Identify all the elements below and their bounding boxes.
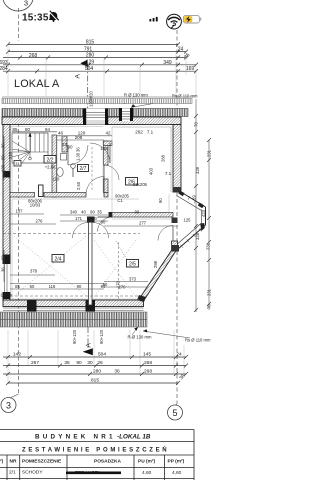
table vertical lines	[7, 430, 194, 480]
svg-text:96: 96	[135, 210, 140, 215]
svg-text:-LOKAL 1B: -LOKAL 1B	[117, 434, 151, 441]
table data row	[9, 470, 182, 477]
svg-text:7.1: 7.1	[147, 130, 154, 135]
svg-text:2/4: 2/4	[55, 257, 62, 263]
stair landing box	[14, 161, 21, 167]
dashed attic line mid room	[3, 233, 140, 235]
left wall	[3, 125, 10, 301]
bay top diagonal jambs	[178, 191, 184, 197]
dashed projection line near section	[91, 147, 93, 192]
svg-text:267: 267	[31, 360, 39, 366]
signal bars	[149, 17, 157, 22]
svg-text:85: 85	[15, 284, 20, 289]
svg-text:5: 5	[172, 408, 177, 418]
svg-text:BUDYNEK NR1: BUDYNEK NR1	[35, 434, 116, 441]
svg-text:Rs Ø 110 mm: Rs Ø 110 mm	[185, 338, 211, 343]
svg-text:Rs Ø 110 mm: Rs Ø 110 mm	[172, 94, 198, 99]
svg-text:24: 24	[178, 47, 184, 53]
bottom R labels with arrows	[128, 335, 212, 343]
grid line 5 (right)	[176, 30, 178, 404]
svg-text:35: 35	[64, 360, 70, 366]
bay lower wall diagonal (hatched)	[140, 248, 177, 301]
duct column stub	[62, 136, 67, 152]
svg-text:42: 42	[105, 131, 111, 136]
svg-text:90+120: 90+120	[99, 329, 104, 344]
svg-text:280: 280	[93, 369, 101, 375]
grid bubble 3 bottom	[1, 398, 16, 413]
bath drain circle	[71, 164, 76, 169]
svg-text:46: 46	[58, 131, 64, 136]
wall V1 lower	[104, 179, 109, 193]
circled wifi icon	[167, 14, 182, 29]
bath wc	[61, 154, 67, 161]
svg-text:36: 36	[76, 147, 81, 152]
interior dim lines	[4, 99, 209, 312]
door in V1 arc	[104, 165, 119, 180]
window W1 opening in top wall	[86, 109, 105, 125]
section line A top	[87, 64, 89, 117]
svg-text:504: 504	[98, 352, 106, 358]
left wall window gap	[3, 264, 11, 292]
room box 2/2 stair	[44, 156, 56, 164]
stair treads	[12, 133, 48, 163]
interior small labels bath	[0, 165, 191, 298]
svg-text:284: 284	[0, 66, 8, 72]
svg-text:3: 3	[6, 401, 11, 411]
wall V1 (bath / room 2-6 divider) upper	[104, 141, 109, 165]
svg-text:298: 298	[153, 260, 158, 268]
bay bottom diagonal jambs	[200, 223, 205, 231]
svg-text:90: 90	[90, 210, 95, 215]
muted bell icon	[49, 11, 59, 22]
svg-text:268: 268	[161, 154, 166, 162]
svg-text:262: 262	[135, 130, 143, 135]
svg-text:137: 137	[16, 209, 24, 214]
eaves line top	[2, 96, 193, 98]
section marker A top triangle	[80, 60, 87, 67]
svg-text:36: 36	[1, 143, 6, 148]
svg-text:ZESTAWIENIE POMIESZCZEŃ: ZESTAWIENIE POMIESZCZEŃ	[22, 446, 169, 454]
room box 2/5	[127, 260, 139, 268]
svg-text:POMIESZCZENIE: POMIESZCZENIE	[22, 459, 62, 465]
svg-text:²): ²)	[0, 459, 4, 465]
right wall end block	[173, 187, 181, 192]
svg-text:268: 268	[29, 53, 38, 59]
svg-text:231: 231	[206, 242, 211, 250]
svg-text:280: 280	[86, 53, 95, 59]
svg-text:268: 268	[144, 369, 152, 375]
svg-text:90: 90	[101, 220, 106, 225]
eaves hatch band top	[2, 99, 192, 104]
svg-text:90: 90	[67, 145, 73, 150]
svg-text:2,50: 2,50	[76, 181, 81, 190]
interior finish lines	[10, 127, 171, 300]
bottom dimension chain lines	[3, 357, 186, 383]
dashed knee wall line bottom	[10, 295, 139, 297]
svg-text:80: 80	[25, 127, 31, 132]
svg-text:815: 815	[86, 39, 95, 45]
svg-text:10/03: 10/03	[30, 203, 41, 208]
svg-text:7.1: 7.1	[165, 171, 172, 176]
svg-text:815: 815	[91, 378, 99, 384]
table header row	[0, 459, 185, 465]
svg-text:R-Ø 130 mm: R-Ø 130 mm	[128, 335, 152, 340]
wall stub above V1	[104, 141, 113, 146]
door arc left of V2	[73, 223, 89, 239]
svg-text:125: 125	[184, 218, 192, 223]
svg-text:110: 110	[53, 177, 60, 182]
leader arrows top right	[124, 98, 130, 104]
door D1 in W1 arc	[86, 177, 104, 195]
door arc middle room left	[68, 145, 88, 165]
content layers	[1, 0, 183, 420]
right dim ticks	[194, 114, 211, 312]
door arc middle room right	[90, 143, 110, 163]
svg-text:118: 118	[49, 284, 56, 289]
svg-text:2/2: 2/2	[47, 158, 54, 164]
bottom piers	[27, 300, 37, 312]
svg-text:31: 31	[15, 161, 20, 166]
dotted attic diagonals room 2-4	[14, 236, 136, 297]
wall W1 right stub	[104, 193, 108, 198]
bay right face	[205, 207, 207, 225]
svg-text:2/5: 2/5	[129, 262, 136, 268]
svg-text:36: 36	[1, 267, 6, 272]
left wall corner block	[3, 292, 11, 299]
dimension labels top	[0, 39, 194, 72]
svg-text:120H/20: 120H/20	[89, 90, 94, 107]
svg-text:PP (m²): PP (m²)	[168, 459, 185, 465]
top wall	[2, 117, 181, 125]
window W2 top right	[122, 109, 130, 122]
svg-text:PU (m²): PU (m²)	[138, 459, 155, 465]
left wall lower jamb block	[3, 255, 11, 265]
svg-text:1,30: 1,30	[76, 152, 81, 161]
svg-text:90: 90	[77, 284, 82, 289]
svg-text:423: 423	[201, 209, 206, 217]
svg-text:378: 378	[30, 269, 38, 274]
svg-text:171: 171	[75, 216, 83, 221]
svg-text:36: 36	[114, 369, 120, 375]
svg-text:2/1: 2/1	[9, 470, 16, 476]
svg-text:LOKAL A: LOKAL A	[14, 78, 60, 90]
interior wall V2 (rooms 2-4 / 2-5 divider)	[89, 217, 93, 305]
svg-text:40: 40	[81, 210, 86, 215]
svg-text:h=1,45m: h=1,45m	[0, 293, 13, 298]
stair walk line with arrow	[29, 136, 31, 158]
svg-text:268: 268	[144, 360, 152, 366]
svg-text:129: 129	[86, 59, 95, 65]
grid bubble 5 bottom	[168, 405, 183, 420]
bay corner block	[137, 295, 146, 302]
svg-text:142: 142	[13, 352, 21, 358]
svg-text:169: 169	[186, 66, 195, 72]
battery charging icon	[183, 15, 199, 23]
svg-text:SCHODY: SCHODY	[22, 470, 43, 476]
svg-text:C1: C1	[117, 198, 123, 203]
svg-text:277: 277	[139, 221, 147, 226]
door arc right of V2	[93, 223, 109, 239]
svg-text:35: 35	[97, 210, 102, 215]
terrace hatch band bottom	[0, 312, 147, 320]
room box 2/4	[52, 255, 64, 263]
chimney block on left wall	[3, 171, 11, 178]
bottom ticks	[6, 355, 188, 385]
svg-text:90+120: 90+120	[72, 329, 77, 344]
svg-text:340: 340	[70, 210, 78, 215]
svg-text:90: 90	[92, 216, 97, 221]
W1 door leaf (open)	[39, 185, 44, 197]
svg-text:349: 349	[163, 60, 172, 66]
room 2-6 finish lines	[170, 127, 172, 192]
svg-text:90: 90	[158, 198, 163, 203]
wall W1 right part	[44, 193, 86, 198]
svg-text:4,60: 4,60	[142, 470, 152, 476]
bath sink	[57, 168, 63, 177]
svg-text:A: A	[86, 343, 93, 348]
dotted leader for room 2-5	[116, 241, 127, 260]
V2 top jamb block	[87, 217, 95, 223]
grid line 3 (left)	[18, 8, 20, 41]
svg-text:98x205: 98x205	[133, 182, 147, 187]
W2 door jamb block	[109, 212, 113, 218]
svg-text:POSADZKA: POSADZKA	[94, 459, 121, 465]
room box 2/6	[126, 178, 138, 186]
label R 130 top right	[124, 93, 198, 99]
rotated interior dims	[1, 122, 212, 344]
bottom dim labels	[13, 352, 187, 384]
svg-text:85: 85	[12, 127, 18, 132]
svg-text:30: 30	[87, 360, 93, 366]
svg-text:94: 94	[45, 127, 51, 132]
wall W2 (room 2-6 bottom)	[112, 213, 173, 218]
extension lines bottom	[8, 330, 184, 384]
svg-text:2/7: 2/7	[80, 166, 87, 172]
top dimension chain lines	[8, 43, 178, 45]
bay window top diagonal	[181, 192, 206, 207]
upper wall hatch band	[2, 109, 188, 117]
window W1 jambs	[83, 109, 86, 126]
bottom glazing wall	[3, 300, 144, 307]
svg-text:276: 276	[36, 219, 44, 224]
door arc bay room	[158, 226, 173, 241]
table horizontal lines	[0, 430, 194, 479]
svg-text:4,60: 4,60	[172, 470, 182, 476]
wall W1 (corridor bottom) left part	[10, 193, 35, 198]
extension lines top	[8, 46, 196, 98]
svg-text:105: 105	[100, 146, 108, 151]
svg-text:120: 120	[1, 164, 6, 172]
svg-text:90: 90	[1, 255, 6, 260]
right wall	[173, 125, 181, 193]
svg-text:24: 24	[176, 352, 182, 358]
svg-text:90: 90	[103, 282, 108, 287]
svg-text:+2,88: +2,88	[45, 165, 56, 170]
bay bottom diagonal window	[174, 225, 206, 253]
strike-through redaction	[66, 471, 121, 474]
svg-text:A: A	[75, 74, 82, 79]
svg-text:26: 26	[97, 360, 103, 366]
room box 2/7 bath	[78, 165, 89, 172]
svg-text:15:35: 15:35	[22, 13, 49, 24]
svg-text:693: 693	[0, 60, 8, 66]
svg-text:3: 3	[24, 0, 28, 8]
svg-text:60: 60	[30, 284, 35, 289]
dashed line right room	[118, 242, 120, 300]
svg-text:373: 373	[129, 277, 137, 282]
door D2 at W2 left arc	[98, 217, 113, 232]
window W2 jambs	[119, 108, 122, 121]
bay side wall vertical	[172, 218, 178, 224]
stair outline	[12, 133, 48, 163]
svg-text:90: 90	[1, 155, 6, 160]
wall V0 (stair/bath divider)	[52, 135, 57, 197]
svg-text:210: 210	[8, 151, 13, 159]
section line A bottom	[87, 327, 89, 352]
svg-text:504: 504	[85, 66, 94, 72]
svg-text:NR: NR	[10, 459, 17, 465]
interior dim row under top wall left	[12, 127, 171, 176]
section marker A bottom triangle	[83, 348, 93, 355]
tick marks	[6, 42, 198, 73]
svg-text:90: 90	[76, 360, 82, 366]
grid bubble 3 top	[3, 0, 34, 11]
svg-text:403: 403	[149, 167, 154, 175]
svg-text:145: 145	[143, 352, 151, 358]
